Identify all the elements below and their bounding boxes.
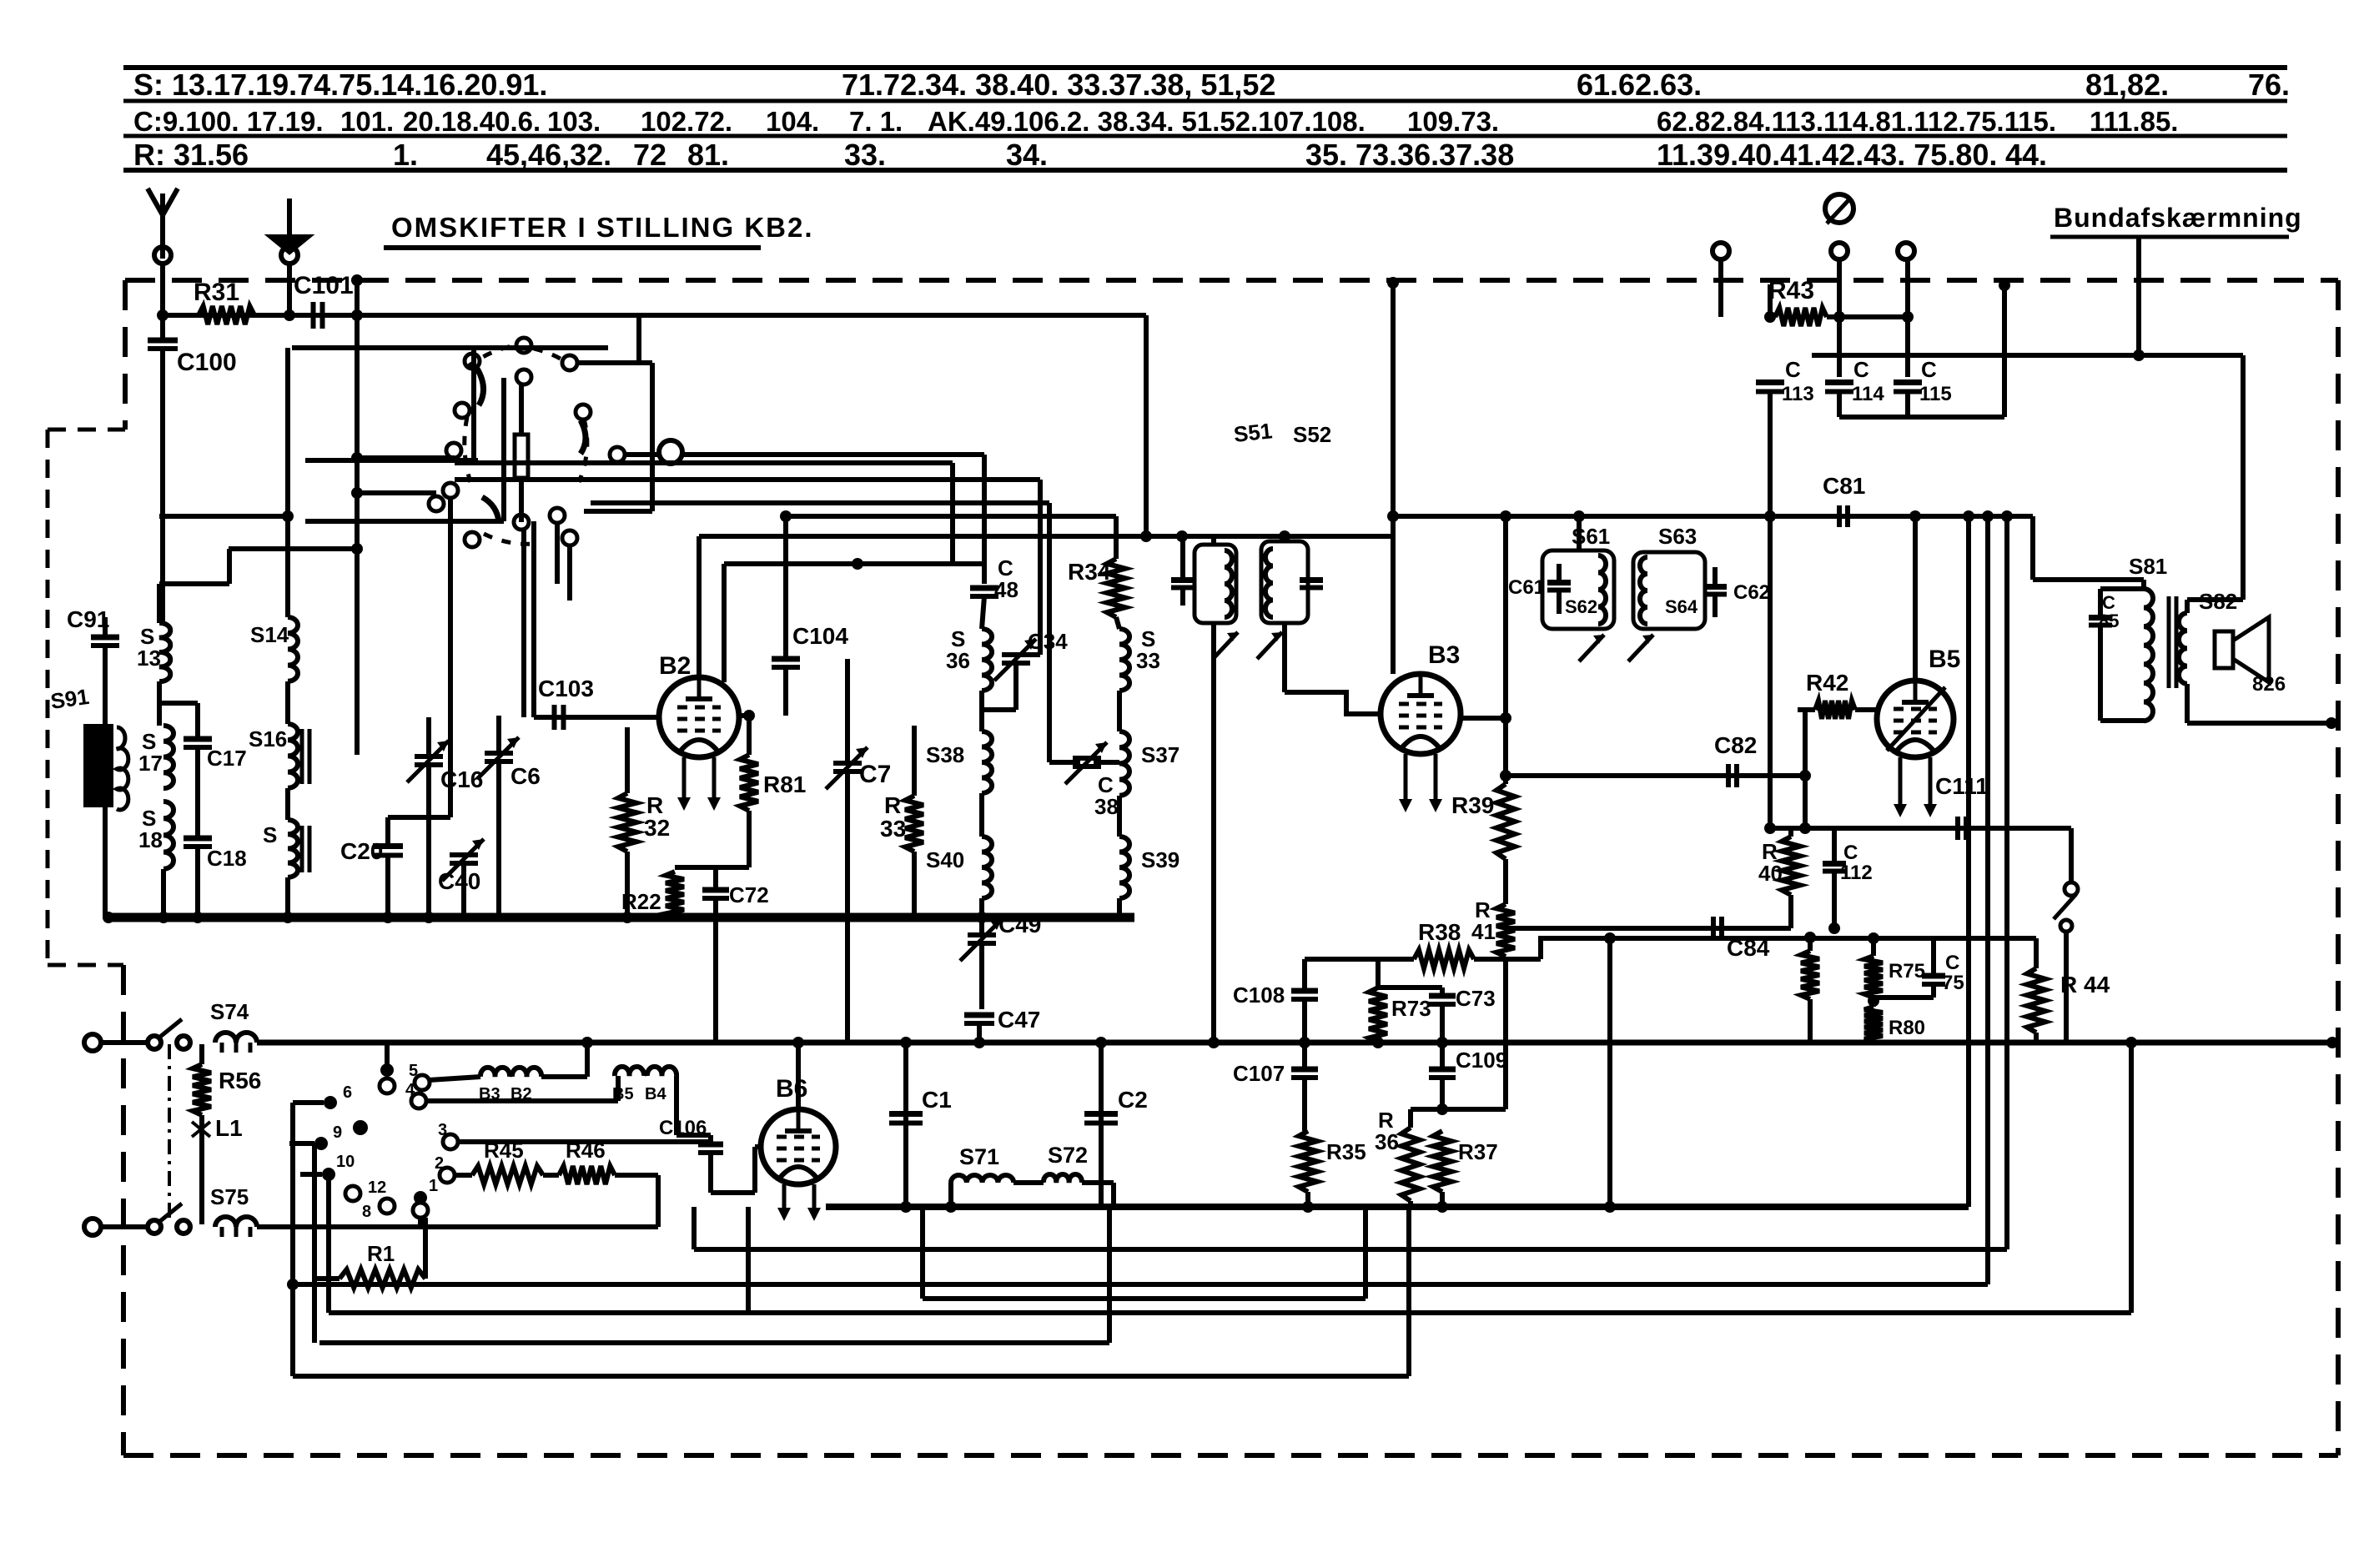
switch contact l [550,508,565,523]
wire x2360 down [1966,516,1971,1207]
node R39 top [1500,510,1511,522]
svg-text:S72: S72 [1048,1143,1088,1168]
svg-text:R22: R22 [621,889,661,914]
svg-text:C81: C81 [1823,473,1865,499]
wire B+ row y619 right [1393,514,2033,519]
resistor R31 [199,306,254,324]
earth lead wire [287,264,292,315]
svg-text:S51: S51 [1232,418,1273,447]
svg-text:1: 1 [429,1177,438,1195]
wire caps bottom to border [2002,285,2007,417]
wire C103 row [534,715,659,720]
svg-text:R56: R56 [219,1068,261,1093]
svg-text:S16: S16 [249,726,287,751]
wire S52 bottom path [1282,623,1287,692]
speaker [2215,631,2233,668]
wire C111 row [1770,826,2071,831]
svg-text:C73: C73 [1456,986,1496,1011]
wire R39 column top [1503,516,1508,784]
band switch contact 7 dot [380,1063,394,1077]
wire C17 link [159,701,198,706]
node S61 top [1573,510,1585,522]
wire R37 bottom [1440,1192,1445,1207]
node R37 top junction [1436,1103,1448,1115]
capacitor C2 plates [1084,1111,1118,1117]
svg-text:34.: 34. [1006,138,1048,172]
svg-text:R80: R80 [1889,1017,1925,1039]
wire R44 bottom [2034,1033,2039,1043]
wire S20 down [285,877,290,917]
svg-text:S14: S14 [250,622,289,647]
svg-text:R: 31.56: R: 31.56 [133,138,249,172]
wire x2555 riser [2129,1043,2134,1313]
wire C49 down [979,946,984,1009]
antenna terminal [154,247,171,264]
wire return y1540 [293,1282,1988,1287]
capacitor C1 plates [889,1111,923,1117]
wire tab4 riser [616,1076,621,1101]
svg-text:C62: C62 [1733,581,1770,604]
svg-text:103.: 103. [547,106,601,137]
coil S52 winding [1265,549,1273,617]
terminal C right [1898,243,1914,259]
node bus R73 [1372,1037,1384,1048]
header rule line 4 [123,168,2287,173]
band switch tab 2 [440,1168,455,1183]
wire R32 top [625,727,630,793]
earth arrow symbol [271,199,308,252]
coil S36 [982,629,992,691]
wire contact h to grid cap [625,452,660,457]
wire C72 col to lower bus [713,917,718,1043]
wire switch feed [2069,828,2074,882]
wire x2383 down [1985,516,1990,1284]
wire R43 to C115 column [1827,314,1908,319]
svg-text:R35: R35 [1326,1139,1366,1164]
wire rotor slot lower [519,478,524,522]
band switch tab 3 [443,1134,458,1149]
wire nested corner 2 drop [722,564,727,682]
wire C113 down [1768,392,1773,828]
svg-text:C49: C49 [998,912,1041,937]
wire rotor slot upper [519,384,524,435]
band switch tab 4 [411,1093,426,1108]
wire grid cap to col [682,452,984,457]
wire osc col down [227,549,232,584]
coil S37 [1119,731,1129,796]
wire R74 top [1808,937,1813,951]
svg-text:44.: 44. [2005,138,2047,172]
wire C72 bottom [713,898,718,917]
capacitor C106 [698,1142,723,1148]
capacitor C91 [91,635,119,641]
svg-text:B5: B5 [1929,646,1960,673]
wire R45-R46 link [543,1173,559,1178]
svg-text:R37: R37 [1458,1139,1498,1164]
filter choke S71 [951,1175,1013,1183]
wire R62 to tube [1855,707,1878,712]
wire shield down right [2241,355,2246,600]
wire R34-S33 link [1116,617,1119,629]
wire S16-S20 link [285,788,290,820]
svg-text:S81: S81 [2129,554,2167,579]
node bus C73 [1436,1037,1448,1048]
coil S16 [288,724,298,788]
node x2555 bus [2125,1037,2137,1048]
svg-text:102.72.: 102.72. [641,106,732,137]
capacitor C48 [970,585,998,591]
capacitor C115 [1894,379,1922,385]
svg-text:S91: S91 [49,684,91,714]
wire nested corner 2 [724,561,984,566]
node S52 feed junction [1279,530,1290,542]
switch contact a [516,338,531,353]
wire R32 bottom [625,852,630,917]
node bus S18 [158,912,169,923]
svg-text:20.18.40.6.: 20.18.40.6. [403,106,541,137]
capacitor C72 [702,887,729,893]
wire S51 top [1211,536,1216,545]
svg-text:10: 10 [336,1153,355,1171]
node caps border junction [1999,279,2010,291]
wire return y1498 riser [692,1207,697,1249]
resistor R36 [1401,1128,1420,1201]
node shield junction [2133,349,2145,361]
coil S82 winding [2179,613,2187,684]
wire S75 out [257,1224,658,1229]
capacitor C75 [1922,973,1945,979]
wire R40 bottom [1788,895,1793,928]
wire R46 drop [656,1175,661,1227]
wire tab2 link [455,1173,472,1178]
node bus S20 [282,912,294,923]
capacitor C107 [1291,1067,1318,1073]
wire C2 column [1099,1043,1104,1207]
svg-text:18: 18 [138,827,163,852]
wire S72 link [1082,1180,1114,1185]
switch contact b [465,354,480,369]
wire switch frame top [577,360,652,365]
capacitor C82 [1726,764,1731,787]
band switch tab 1 [413,1203,428,1218]
wire C84 row [1506,926,1791,931]
wire S18 down [161,869,166,917]
svg-text:36: 36 [946,648,970,673]
inductor L1 mark [192,1122,210,1137]
node top border junction [351,274,363,286]
wire contact1 riser [418,1218,423,1227]
capacitor C81 [1837,505,1842,527]
wire C16 down [426,767,431,917]
dashed screen border top [125,278,2338,283]
svg-text:115: 115 [1919,383,1952,405]
node bus R35 [1302,1201,1314,1213]
wire C91 down [103,646,108,917]
dashed screen border bottom [123,1453,2338,1458]
svg-text:2: 2 [435,1154,444,1173]
svg-text:S75: S75 [210,1184,249,1209]
svg-text:6: 6 [343,1083,352,1102]
wire C73 bottom [1440,1004,1445,1043]
svg-text:5: 5 [409,1062,418,1080]
switch contact i [443,483,458,498]
wire S36-S38 link [979,691,984,731]
wire R75 top [1871,938,1876,956]
wire C20 top link [388,815,450,820]
capacitor C108 [1291,988,1318,994]
wire grid link to tube [755,1144,762,1149]
tube B2 grid cap terminal [659,440,682,464]
wire return y1650 [293,1374,1409,1379]
wire C51 top [1180,536,1185,580]
dashed screen border left jog2 [48,963,123,967]
resistor R1 [339,1269,425,1288]
wire switch row y417 [292,345,608,350]
coil S18 [163,802,174,869]
svg-text:C20: C20 [340,838,383,864]
node R74 top [1804,932,1816,943]
wire R75-R80 link [1871,998,1876,1007]
wire nested corner 1 [699,534,1393,539]
svg-text:C72: C72 [729,882,769,907]
trimmer C49 [968,932,996,937]
wire S82 top link [2187,597,2243,602]
coil S20 core bars [300,826,304,872]
node anode C104 [743,710,755,721]
coil S20 [288,820,298,877]
node B3 border junction [1387,277,1399,289]
svg-text:76.: 76. [2248,68,2290,102]
wire C61 top [1557,564,1562,582]
pickup symbol [1825,194,1853,223]
header rule line 1 [123,65,2287,70]
wire C73 top [1440,988,1445,996]
wire C85 top [2098,589,2103,617]
wire R40 top [1788,828,1793,837]
wire R46 right [615,1173,658,1178]
wire C106 grid link [711,1190,755,1195]
node R62 left [1799,770,1811,781]
wire C38 to S37 [1094,760,1119,765]
wire S33-S37 link [1117,691,1122,731]
wire S81 feed [2033,577,2144,582]
switch contact h [610,447,625,462]
wire vertical from border to C16 [355,280,360,755]
dashed screen border left lower [121,965,126,1455]
svg-text:R43: R43 [1768,277,1814,304]
svg-text:C82: C82 [1714,732,1757,758]
switch S74 contact b [177,1036,190,1049]
wire oscillator feed vertical [1144,315,1149,536]
resistor R46 [559,1166,615,1184]
Bundafskaermning underline [2050,235,2289,239]
wire x383 down [312,1143,317,1343]
wire C112 bottom [1832,872,1837,928]
wire C61 bot [1557,591,1562,614]
resistor R34 [1107,559,1125,617]
wire R43 left vertical [1768,284,1773,317]
wire S81 bottom link [2100,718,2144,723]
tube B5 [1877,681,1954,757]
tuning arrow S51 [1213,632,1238,659]
node R43-C114 junction [1833,311,1845,323]
trimmer C7 [833,761,862,766]
choke S75 ticks [220,1227,224,1237]
node x428 y549 [351,452,363,464]
wire C7 col to lower bus [845,917,850,1043]
svg-text:62.82.84.113.114.81.112.75.115: 62.82.84.113.114.81.112.75.115. [1657,106,2056,137]
capacitor C112 [1823,861,1846,867]
svg-text:B2: B2 [659,652,691,680]
wire C104 top [783,516,788,659]
svg-text:R1: R1 [367,1241,395,1266]
wire switch frame bottom [584,509,652,514]
svg-text:61.62.63.: 61.62.63. [1577,68,1702,102]
node bus C47 [973,1037,985,1048]
wire S71-S72 link [1013,1180,1044,1185]
wire x1689 riser [1406,1207,1411,1376]
terminal B left [1713,243,1729,259]
svg-text:C2: C2 [1118,1087,1148,1113]
wire R62 left down [1803,710,1808,828]
node B5 anode top [1909,510,1921,522]
capacitor C61 [1547,580,1571,585]
node bus R37 [1436,1201,1448,1213]
wire C1 column [903,1043,908,1207]
svg-text:109.73.: 109.73. [1407,106,1499,137]
svg-text:114: 114 [1852,383,1884,405]
wire switch row y575 [455,477,1040,482]
svg-text:S: 13.17.19.74.75.14.16.20.91.: S: 13.17.19.74.75.14.16.20.91. [133,68,547,102]
svg-text:826: 826 [2252,673,2286,696]
wire C62 top [1713,567,1718,586]
resistor R43 [1775,308,1827,326]
svg-text:C103: C103 [538,676,594,701]
resistor R37 [1433,1131,1451,1192]
wire antenna top row [163,313,1146,318]
svg-text:C18: C18 [207,846,247,871]
wire C7 bottom [845,774,850,917]
wire C112 top [1832,828,1837,863]
node x428 y591 [351,487,363,499]
trimmer C6 [485,751,513,756]
resistor R73 [1369,988,1387,1043]
band switch hub [353,1120,368,1135]
coil S52 box [1261,541,1308,623]
band switch contact 1 dot [414,1191,427,1204]
trimmer C34 [1002,652,1030,657]
earth terminal [281,247,298,264]
svg-text:S: S [263,822,277,847]
wire L1 link [199,1115,204,1224]
wire B+ row y619 left [786,514,1116,519]
capacitor C104 plates [772,656,800,662]
tube B5 pin 1 [1899,757,1903,807]
svg-text:S61: S61 [1572,524,1610,549]
wire x1247 down [1038,480,1043,655]
capacitor C20 [373,843,403,849]
band switch contact 6 [324,1096,337,1109]
wire R41 bottom [1503,957,1508,1109]
node bus S91 [103,912,114,923]
resistor R33 [905,796,923,852]
tube B3 pin 1 [1404,754,1408,802]
wire switch col x540 [448,498,453,817]
svg-text:S62: S62 [1565,596,1597,617]
coil S62 winding [1598,555,1606,624]
svg-text:R46: R46 [566,1138,606,1163]
coil S40 [982,837,992,898]
header rule line 2 [123,99,2287,103]
node bus right border [2326,1037,2338,1048]
node R43-C115 junction [1902,311,1914,323]
svg-text:C:9.100. 17.19.: C:9.100. 17.19. [133,106,324,137]
capacitor C62 [1703,584,1727,590]
node bus C18 [192,912,204,923]
wire coil top link [159,581,229,586]
capacitor C100 [148,338,178,344]
node x428 y658 [351,543,363,555]
wire C103 left col [531,521,536,717]
wire B3 top cap [1391,283,1396,674]
svg-text:36: 36 [1375,1129,1399,1154]
svg-text:S40: S40 [926,847,964,872]
svg-text:35. 73.36.37.38: 35. 73.36.37.38 [1305,138,1514,172]
wire heater row mid [541,1074,587,1079]
node B3 B+ junction [1387,510,1399,522]
svg-text:R73: R73 [1391,996,1431,1021]
wire col x1180 down [982,455,987,584]
wire C6 top [496,716,501,751]
resistor R44 [2027,968,2045,1033]
node osc feed junction [1140,530,1152,542]
svg-text:75: 75 [1942,972,1964,994]
node R43 left [1764,311,1776,323]
wire tab4 row [426,1098,618,1103]
tube B3 [1381,674,1461,754]
wire R33 top [912,726,917,796]
main heater bus [257,1040,2332,1046]
wire C18 down [195,847,200,917]
wire S71 left riser [948,1183,953,1207]
wire S14 top [285,348,290,617]
resistor R35 [1299,1131,1317,1192]
wire C75 top [1931,938,1936,974]
wire R44 top [2034,938,2039,968]
node C1 top [900,1037,912,1048]
switch contact k [514,515,529,530]
capacitor C101 [311,302,316,329]
svg-text:71.72.34. 38.40. 33.37.38, 51,: 71.72.34. 38.40. 33.37.38, 51,52 [842,68,1275,102]
transformer core bars [2167,596,2171,688]
switch contact m [562,530,577,545]
wire R36 bottom [1408,1201,1413,1207]
svg-text:B3: B3 [1428,641,1460,669]
node bus C20 [382,912,394,923]
wire switch frame up [636,315,641,364]
wire cathode row y1040 [675,865,749,870]
wire R35 bottom [1305,1192,1310,1207]
svg-text:R38: R38 [1418,919,1461,945]
wire S13 top horiz [159,514,288,519]
coil S81 winding [2144,589,2153,721]
wire grid link up [752,1147,757,1193]
svg-text:112: 112 [1840,862,1873,884]
tube B2 pin 2 [712,757,717,801]
band switch tab 5 [415,1075,430,1090]
coil S33 [1119,629,1129,691]
svg-text:S37: S37 [1141,742,1179,767]
